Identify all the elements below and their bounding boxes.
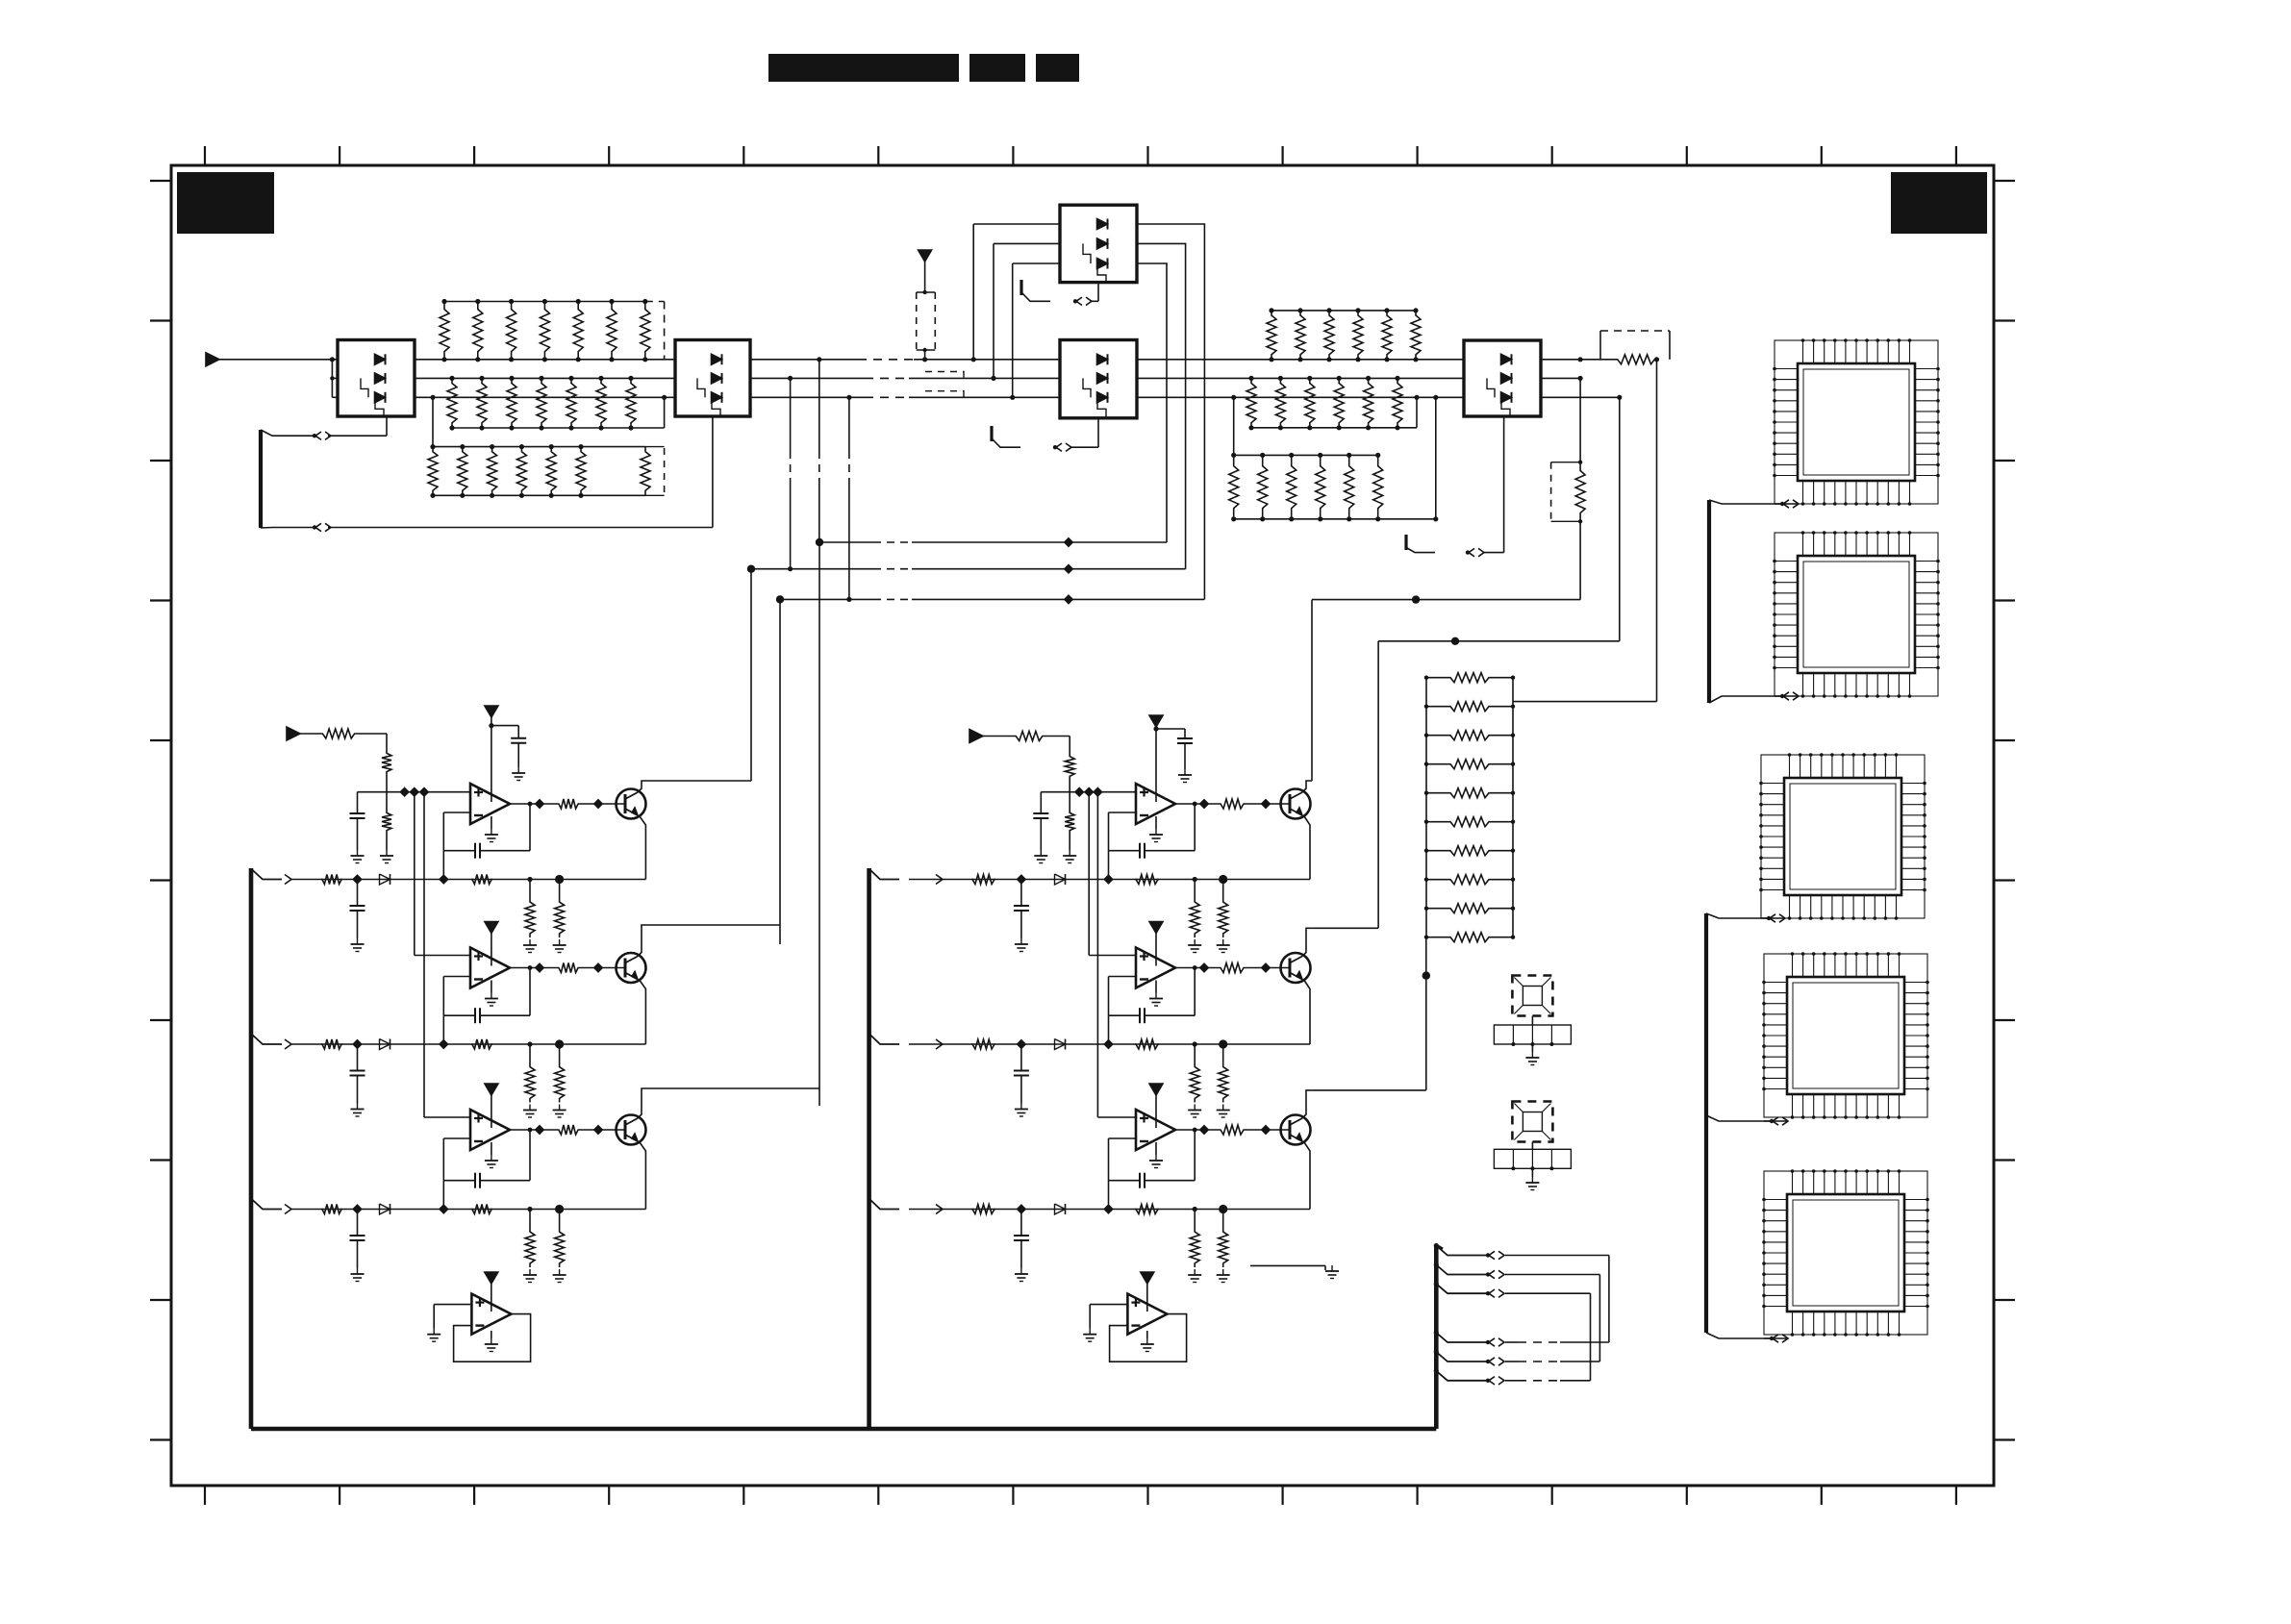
ground op-amp right ch1 [1149,816,1163,842]
wire collector Q3' right [1302,1090,1312,1118]
supply arrow op-amp right ch1 [1149,715,1163,727]
capacitor feedback right ch3 [1109,1128,1197,1188]
resistor load b left ch2 [553,1044,566,1117]
wire bus G segment 4 [1137,377,1464,379]
transistor Q2' right [1281,953,1311,983]
junction feedback row right ch3 [1104,1205,1112,1212]
wire VREF to op-amp3 + right [1097,792,1136,1117]
op-amp U4 right buffer [1127,1294,1167,1335]
arrow input row left ch1 [285,875,291,885]
resistor row second left ch1 [471,875,492,885]
supply arrow op-amp right ch2 [1149,922,1163,934]
resistor row second left ch3 [471,1205,492,1214]
resistor load b left ch1 [553,880,566,953]
wire emitter Q2 left [640,981,645,1045]
socket strip for X1 [1494,1025,1571,1044]
grid reference black box top-right [1891,172,1987,234]
node row b right ch1 [1219,875,1227,884]
fusible resistor dashed body [917,290,936,352]
bracket IC pair upper [1709,500,1781,703]
resistor row second right ch3 [1135,1205,1159,1214]
capacitor supply decouple right ch1 [1177,729,1193,783]
op-amp U1 right [1136,784,1175,824]
resistor load a left ch2 [523,1044,537,1117]
arrow input row left ch3 [285,1205,291,1214]
resistor load a right ch2 [1188,1044,1201,1117]
resistor base left ch1 [558,799,579,809]
wire emitter Q3' right [1304,1142,1310,1210]
probe stub and arrow for D4 [992,418,1098,452]
IC U14 QFP package [1764,1171,1927,1335]
diode input row left ch2 [380,1039,390,1050]
wire supply op-amp left ch1 [489,717,518,802]
probe stub and arrow for D3 [1021,280,1098,306]
resistor base right ch3 [1220,1125,1245,1135]
wire emitter Q1 left [640,816,645,880]
chip package symbol X1 [1512,976,1552,1016]
wire supply op-amp right ch3 [1155,1095,1157,1128]
wire bus B segment 5 [1541,396,1620,398]
input arrow VREF left [287,727,300,740]
resistor row second left ch2 [471,1039,492,1049]
wire bus G segment 3 with break [750,377,1060,379]
node row a left ch1 [527,877,532,882]
wire VREF to op-amp3 + left [424,792,470,1117]
capacitor row to ground right ch2 [1014,1044,1029,1116]
resistor single with dashed option right group [1551,378,1586,523]
wire emitter Q1' right [1304,816,1310,880]
harness line 4 with arrow dashed [1434,1330,1609,1346]
wire feedback - input left ch1 [443,812,470,851]
capacitor row to ground left ch1 [350,880,365,952]
resistor load b left ch3 [553,1210,566,1283]
redacted title bar medium [1036,54,1079,82]
wire supply op-amp right ch1 [1153,726,1185,802]
resistor base right ch2 [1220,963,1245,973]
node cap tap row left ch3 [353,1205,361,1212]
redacted title bar short [969,54,1025,82]
node resistor right [1654,357,1659,362]
wire - node to row right ch2 [1108,1015,1110,1044]
node bus G right [1578,376,1583,381]
op-amp U3 left [470,1110,510,1150]
resistor stack 10x between rails [1424,673,1515,942]
bracket IC trio lower [1706,913,1771,1338]
junction feedback row right ch1 [1104,875,1112,883]
op-amp U1 left [470,784,510,824]
wire - node to row left ch1 [442,851,444,880]
resistor ladder L4 (6x pull-up to bus R) [1267,311,1276,360]
dashed jumper bus R to bus G [925,372,964,379]
resistor VREF series right [983,732,1070,741]
ground stub right group aux [1250,1265,1339,1279]
capacitor VREF filter right [1033,792,1048,863]
diode box D2 [675,340,750,417]
wire bus B stub into diode box D1 [332,396,338,398]
wire to base right ch1 [1245,800,1290,808]
wire emitter Q2' right [1304,981,1310,1045]
grid reference black box top-left [177,172,274,234]
wire bus G segment 2 [415,377,675,379]
arrow input row right ch3 [936,1205,943,1214]
wire D3 input loop 2 [991,243,1060,381]
chip package symbol X2 [1512,1102,1552,1142]
bracket connector top-left [261,430,316,528]
resistor load a left ch3 [523,1210,537,1283]
wire input row left ch2 [291,1043,645,1045]
arrow to U13 [1764,1117,1788,1125]
wire - node to row right ch3 [1108,1181,1110,1210]
resistor input row left ch1 [321,875,342,885]
resistor row second right ch1 [1135,875,1159,885]
supply arrow op-amp right ch3 [1149,1084,1163,1095]
resistor input row left ch2 [321,1039,342,1049]
wire X1 to socket strip [1531,1016,1533,1026]
supply arrow op-amp left ch2 [485,922,498,934]
node row b left ch1 [555,875,564,884]
feedback loop left buffer [454,1314,531,1362]
arrow to U11 [1775,692,1799,700]
input arrow VREF right [969,730,983,743]
wire net Y2 (D3 loop2 to Q1 collector) [747,565,1186,782]
capacitor supply decouple left ch1 [511,726,526,781]
wire bus B segment 2 [415,396,675,398]
dashed jumper bus R to bus B [925,391,964,398]
wire L5 bottom rail riser to bus B [1397,395,1420,428]
op-amp U4 left buffer [471,1294,511,1335]
junction feedback row left ch1 [440,875,447,883]
capacitor feedback left ch3 [443,1128,532,1188]
node row a left ch2 [527,1041,532,1046]
wire VREF node left [358,788,471,796]
wire output left ch3 [510,1126,558,1134]
wire collector Q3 left [638,1088,819,1118]
ground op-amp left ch2 [485,981,498,1007]
op-amp U3 right [1136,1110,1175,1150]
supply arrow over bus [919,250,932,262]
node cap tap row right ch3 [1018,1205,1025,1212]
node bus R tap [330,357,335,380]
wire feedback - input left ch2 [443,977,470,1016]
node row b right ch3 [1219,1205,1227,1213]
wire supply op-amp left ch3 [491,1095,492,1128]
wire net Y3 (D3 loop1 to Q2 collector) [776,595,1205,944]
arrow input row left ch2 [285,1039,291,1049]
wire input row left ch1 [291,879,645,881]
resistor row second right ch2 [1135,1039,1159,1049]
IC U12 QFP package [1761,755,1925,918]
IC U11 QFP package [1775,533,1938,696]
wire output right ch1 [1175,800,1220,808]
wire supply op-amp left ch2 [491,934,492,966]
diode input row left ch3 [380,1204,390,1214]
node row a right ch2 [1193,1041,1197,1046]
resistor ladder L2 (7x on bus G) [447,378,457,428]
op-amp U2 right [1136,948,1175,988]
node fusible on bus R [922,357,927,362]
harness line 1 with arrow [1434,1243,1609,1342]
bracket branch row left ch3 [251,1199,282,1210]
node row b left ch2 [555,1039,564,1048]
wire to base right ch2 [1245,963,1290,971]
transistor Q3' right [1281,1115,1311,1145]
transistor Q1' right [1281,789,1311,819]
wire VREF node right [1041,788,1136,796]
ground op-amp right ch3 [1149,1142,1163,1168]
diode input row right ch1 [1055,874,1066,885]
resistor VREF series left [300,729,387,738]
wire D3 input loop 1 [971,224,1060,362]
resistor input row right ch3 [971,1205,995,1214]
wire bus R segment 4 [1137,359,1464,361]
wire feedback - input right ch1 [1109,812,1137,851]
wire L2 bottom rail to bus B [631,395,667,428]
junction feedback row right ch2 [1104,1040,1112,1048]
wire input row right ch2 [909,1043,1310,1045]
arrow to U10 [1775,500,1799,508]
diode box D4 [1060,340,1137,418]
bracket connector bottom harness [1436,1245,1443,1429]
diode input row left ch1 [380,874,390,885]
wire output right ch3 [1175,1126,1220,1134]
wire bus B segment 4 [1137,396,1464,398]
harness line 2 with arrow [1434,1262,1600,1362]
ground X2 [1525,1168,1539,1189]
wire emitter Q3 left [640,1142,645,1210]
wire feedback - input right ch2 [1109,977,1137,1016]
node row a right ch1 [1193,877,1197,882]
wire bus G stub into diode box D1 [332,377,338,379]
resistor ladder L3 (6x) [428,447,438,496]
node cap tap row right ch1 [1018,875,1025,883]
wire D3 output loop 2 [1137,243,1186,568]
harness line 3 with arrow [1434,1282,1591,1381]
wire to base left ch3 [579,1126,625,1134]
resistor load b right ch2 [1217,1044,1230,1117]
supply arrow op-amp left ch1 [485,706,498,717]
node row b right ch2 [1219,1039,1227,1048]
dashed bypass loop over series resistor [1600,331,1670,360]
wire input row left ch3 [291,1209,645,1211]
node bus R right [1578,357,1583,362]
supply arrow op-amp left buffer [485,1272,498,1312]
border tick marks top and bottom edges [205,146,1956,1505]
harness line 6 with arrow dashed [1434,1368,1591,1385]
border tick marks left and right edges [150,181,2015,1440]
node row b left ch3 [555,1205,564,1213]
dashed extension of L1 top rail [645,302,665,360]
wire output left ch1 [510,800,558,808]
wire net Y4 (bus G via option resistor to Q1' collector) [1312,521,1580,781]
schematic sheet border frame [171,165,1994,1486]
wire net Y1 (D3 loop3 to Q3 collector) [816,538,1167,1106]
wire collector Q1' right [1302,781,1312,792]
wire output left ch2 [510,963,558,971]
capacitor VREF filter left [350,792,365,863]
arrow to U12 [1761,914,1785,922]
wire net Y5 (bus B to Q2' collector) [1312,397,1620,928]
wire D3 output loop 1 [1137,224,1204,599]
bracket connector right group [867,868,871,1429]
resistor input row right ch1 [971,875,995,885]
wire D3 input loop 3 [1010,263,1060,400]
wire net Y6 (series resistor to ladder stack) [1513,360,1657,702]
wire - node to row right ch1 [1108,851,1110,880]
resistor input row right ch2 [971,1039,995,1049]
resistor ladder L5 (6x on bus G) [1246,378,1256,427]
wire to base left ch1 [579,800,625,808]
bracket connector left group [249,868,254,1429]
resistor single with dashed option left group [581,447,665,496]
wire bus B segment 3 with break [750,396,1060,398]
wire collector Q2' right [1302,928,1312,956]
junction feedback row left ch2 [440,1040,447,1048]
node cap tap row left ch1 [353,875,361,883]
capacitor feedback right ch2 [1109,965,1197,1023]
connector stub and arrow for D2 [313,416,713,532]
wire feedback - input right ch3 [1109,1138,1137,1181]
supply arrow op-amp right buffer [1141,1272,1154,1312]
wire feedback - input left ch3 [443,1138,470,1181]
transistor Q1 left [617,789,646,819]
capacitor row to ground right ch1 [1014,880,1029,952]
capacitor row to ground right ch3 [1014,1210,1029,1282]
bracket branch row left ch2 [251,1034,282,1044]
wire supply to fusible resistor [924,262,926,292]
resistor input row left ch3 [321,1205,342,1214]
wire collector Q1 left [638,781,751,792]
diode input row right ch2 [1055,1039,1066,1050]
resistor load a right ch3 [1188,1210,1201,1283]
supply arrow op-amp left ch3 [485,1084,498,1095]
arrow input row right ch2 [936,1039,943,1049]
redacted title bar long [768,54,959,82]
transistor Q2 left [617,953,646,983]
ground op-amp left ch1 [485,816,498,842]
wire bus G tap down to net Y2 [788,376,793,572]
resistor VREF divider lower left [380,792,393,863]
junction feedback row left ch3 [440,1205,447,1212]
wire bus R segment 3 with break [750,359,1060,361]
wire supply op-amp right ch2 [1155,934,1157,966]
socket strip for X2 [1494,1149,1571,1168]
bracket branch row right ch3 [869,1199,899,1210]
resistor VREF divider upper right [1065,737,1074,792]
wire bus R segment 1 [219,359,338,361]
wire collector Q2 left [638,925,780,957]
wire bus R to G/B feed [331,360,333,398]
wire X2 to socket strip [1531,1142,1533,1150]
wire fusible resistor to bus R [924,350,926,360]
ground op-amp left buffer [485,1331,498,1352]
resistor VREF divider lower right [1063,792,1076,863]
wire VREF to op-amp2 + right [1089,792,1136,956]
wire bus B tap down to net Y3 [846,395,851,602]
wire bus R segment 2 [415,359,675,361]
diode box D3 [1060,205,1137,282]
probe stub and arrow for D5 [1406,416,1504,557]
arrow input row right ch1 [936,875,943,885]
wire input row right ch1 [909,879,1310,881]
op-amp U2 left [470,948,510,988]
wire + input right buffer [1083,1305,1127,1342]
node cap tap row right ch2 [1018,1040,1025,1048]
capacitor row to ground left ch2 [350,1044,365,1116]
wire to base right ch3 [1245,1126,1290,1134]
node cap tap row left ch2 [353,1040,361,1048]
bracket branch row right ch2 [869,1034,899,1044]
resistor load b right ch3 [1217,1210,1230,1283]
wire bus R tap down to net Y1 [817,357,821,542]
wire + input left buffer [427,1305,471,1342]
transistor Q3 left [617,1115,646,1145]
capacitor feedback left ch1 [443,802,532,859]
bracket branch row left ch1 [251,869,282,880]
resistor load a right ch1 [1188,880,1201,953]
wire VREF to op-amp2 + left [415,792,470,956]
diode box D5 [1464,340,1541,416]
harness line 5 with arrow dashed [1434,1349,1600,1365]
wire net Y7 (Q3' collector to stack bottom) [1312,937,1430,1090]
resistor base right ch1 [1220,799,1245,809]
node row a left ch3 [527,1207,532,1212]
wire - node to row left ch3 [442,1181,444,1210]
capacitor row to ground left ch3 [350,1210,365,1282]
diode box D1 [338,340,415,417]
wire thick analog return [251,1427,1436,1432]
capacitor feedback left ch2 [443,965,532,1023]
resistor base left ch2 [558,963,579,973]
resistor ladder L1 (7x pull-up to bus R) [440,302,449,360]
wire to base left ch2 [579,963,625,971]
IC U10 QFP package [1775,340,1938,504]
ground op-amp left ch3 [485,1142,498,1168]
wire L3 top rail to bus B [430,395,435,447]
wire input row right ch3 [909,1209,1310,1211]
feedback loop right buffer [1110,1314,1187,1362]
wire L6 top rail riser to bus B [1231,395,1236,456]
wire bus G segment 5 [1541,377,1580,379]
wire - node to row left ch2 [442,1015,444,1044]
resistor VREF divider upper left [382,734,391,792]
resistor series output R [1616,355,1656,364]
resistor base left ch3 [558,1125,579,1135]
resistor load a left ch1 [523,880,537,953]
node bus B right [1617,395,1622,400]
diode input row right ch3 [1055,1204,1066,1214]
bracket branch row right ch1 [869,869,899,880]
arrow to U14 [1764,1335,1788,1342]
IC U13 QFP package [1764,954,1927,1117]
input arrow bus R [206,353,219,366]
ground X1 [1525,1044,1539,1065]
node row a right ch3 [1193,1207,1197,1212]
capacitor feedback right ch1 [1109,802,1197,859]
ground op-amp right ch2 [1149,981,1163,1007]
ground op-amp right buffer [1141,1331,1154,1352]
connector stub and arrow for D1 [313,416,387,439]
wire L6 bottom rail riser [1378,395,1439,522]
resistor ladder L6 (6x) [1229,455,1239,518]
wire D3 output loop 3 [1137,263,1167,542]
resistor load b right ch1 [1217,880,1230,953]
wire bus R segment 5 [1541,359,1616,361]
wire output right ch2 [1175,963,1220,971]
